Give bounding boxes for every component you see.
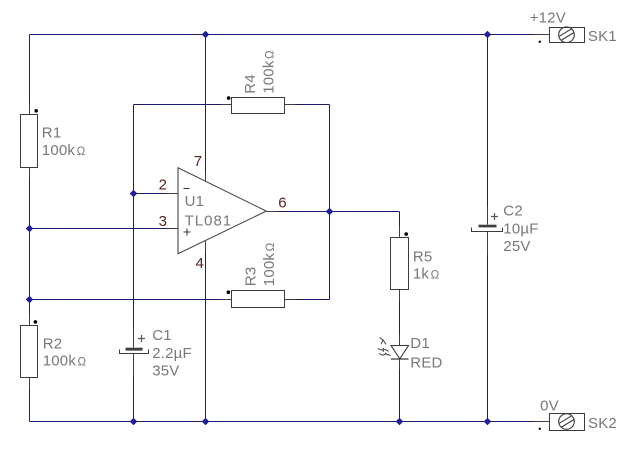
svg-text:R2: R2 xyxy=(43,336,63,353)
svg-text:SK2: SK2 xyxy=(588,415,617,432)
svg-text:4: 4 xyxy=(196,255,205,272)
svg-text:2.2µF: 2.2µF xyxy=(152,345,192,362)
svg-text:R1: R1 xyxy=(42,124,62,141)
svg-text:R3: R3 xyxy=(242,267,259,287)
svg-text:2: 2 xyxy=(159,177,168,194)
svg-text:25V: 25V xyxy=(503,238,530,255)
svg-text:7: 7 xyxy=(194,153,203,170)
svg-text:+12V: +12V xyxy=(530,10,566,27)
svg-text:35V: 35V xyxy=(152,363,179,380)
svg-text:D1: D1 xyxy=(410,335,430,352)
svg-text:SK1: SK1 xyxy=(588,28,617,45)
svg-text:RED: RED xyxy=(410,354,442,371)
svg-text:10µF: 10µF xyxy=(503,221,538,238)
svg-text:R4: R4 xyxy=(242,74,259,94)
svg-text:6: 6 xyxy=(278,195,287,212)
svg-text:0V: 0V xyxy=(540,397,559,414)
svg-text:3: 3 xyxy=(159,213,168,230)
svg-text:C1: C1 xyxy=(152,327,172,344)
svg-text:R5: R5 xyxy=(413,249,433,266)
svg-text:TL081: TL081 xyxy=(185,213,233,230)
svg-text:C2: C2 xyxy=(503,203,523,220)
svg-text:U1: U1 xyxy=(185,193,205,210)
